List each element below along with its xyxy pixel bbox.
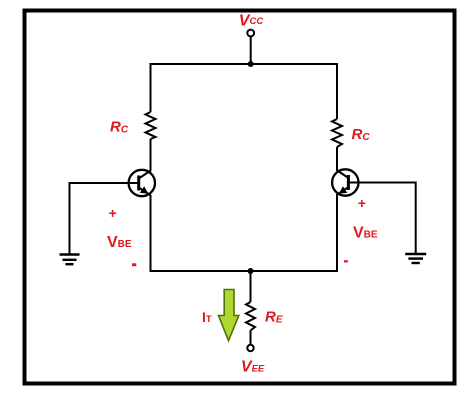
label minus left <box>132 263 136 266</box>
wire left collector drop <box>150 63 152 112</box>
svg-text:+: + <box>358 195 366 211</box>
svg-text:VEE: VEE <box>241 359 265 376</box>
resistor RC right <box>332 119 342 147</box>
wire left base horizontal <box>70 182 130 184</box>
svg-text:IT: IT <box>202 309 212 325</box>
wire top rail <box>150 63 339 65</box>
wire right emitter drop <box>336 195 338 272</box>
wire right base down <box>415 182 417 255</box>
wire right base horizontal <box>359 182 416 184</box>
transistor Q1 <box>129 170 155 196</box>
wire left resistor to transistor <box>150 139 152 171</box>
wire RE stub <box>250 271 252 302</box>
wire right collector drop <box>336 63 338 119</box>
svg-text:VBE: VBE <box>353 224 378 241</box>
junction dot bottom <box>248 268 254 274</box>
svg-text:RC: RC <box>110 119 129 136</box>
ground left <box>60 255 80 265</box>
wire left emitter drop <box>150 195 152 271</box>
wire VCC stub <box>250 37 252 65</box>
node VCC terminal <box>247 30 254 37</box>
ground right <box>405 254 426 263</box>
wire left base down <box>69 182 71 255</box>
svg-text:VBE: VBE <box>107 234 132 251</box>
wire right resistor to transistor <box>336 147 338 171</box>
svg-text:RC: RC <box>352 126 371 143</box>
label minus right <box>344 260 348 262</box>
wire bottom rail <box>150 270 339 272</box>
current arrow IT <box>219 290 239 341</box>
svg-text:+: + <box>109 205 117 221</box>
junction dot top <box>248 61 254 67</box>
svg-text:RE: RE <box>265 309 283 326</box>
resistor RE <box>246 302 255 331</box>
resistor RC left <box>146 112 156 139</box>
svg-text:VCC: VCC <box>239 13 264 30</box>
node VEE terminal <box>247 345 253 351</box>
transistor Q2 <box>332 169 358 195</box>
wire RE to terminal <box>250 331 252 345</box>
